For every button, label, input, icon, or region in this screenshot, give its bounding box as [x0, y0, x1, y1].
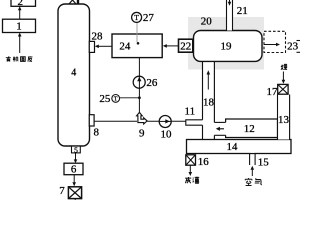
svg-text:12: 12 [244, 123, 255, 135]
svg-text:1: 1 [16, 21, 22, 33]
svg-text:19: 19 [221, 41, 233, 53]
svg-text:15: 15 [258, 157, 270, 169]
svg-text:5: 5 [74, 145, 78, 154]
svg-text:23: 23 [287, 40, 299, 52]
svg-text:18: 18 [203, 97, 215, 109]
svg-text:13: 13 [278, 114, 290, 126]
svg-text:16: 16 [198, 156, 210, 168]
svg-text:T: T [134, 13, 139, 22]
svg-text:25: 25 [99, 93, 111, 105]
svg-text:2: 2 [18, 0, 24, 8]
svg-text:9: 9 [139, 128, 145, 140]
svg-text:22: 22 [180, 40, 191, 52]
svg-text:4: 4 [71, 68, 76, 79]
svg-text:20: 20 [201, 16, 213, 28]
svg-text:14: 14 [227, 141, 239, 153]
svg-text:27: 27 [143, 12, 155, 24]
svg-text:10: 10 [161, 128, 173, 140]
svg-text:6: 6 [71, 164, 77, 176]
svg-text:24: 24 [119, 41, 131, 53]
svg-text:28: 28 [92, 31, 104, 43]
svg-text:7: 7 [59, 185, 65, 197]
svg-text:11: 11 [185, 106, 196, 118]
svg-text:21: 21 [237, 5, 248, 17]
svg-text:26: 26 [146, 77, 158, 89]
svg-text:8: 8 [93, 127, 99, 139]
svg-text:17: 17 [267, 86, 279, 98]
svg-text:T: T [114, 97, 118, 103]
